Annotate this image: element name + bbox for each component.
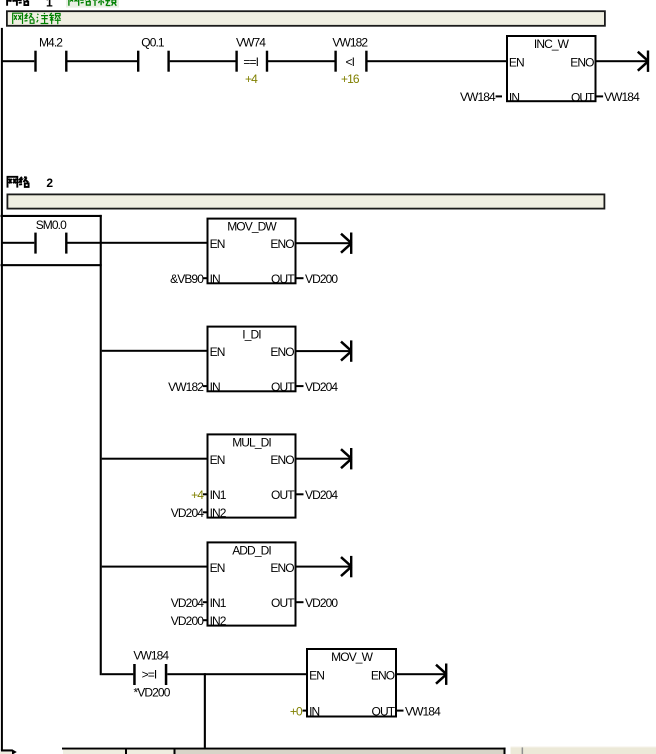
svg-text:+4: +4 [245,72,258,86]
operand +0 at MOV_W IN [290,704,307,718]
svg-text:VD204: VD204 [305,488,338,502]
svg-text:2: 2 [46,176,53,190]
svg-text:ENO: ENO [270,453,294,467]
selection box around SM0.0 [1,215,102,266]
svg-text:&VB90: &VB90 [170,272,204,286]
compare contact ==I VW74 [235,35,268,86]
bottom right panel strip [511,746,656,754]
operand VW184 at INC_W OUT [597,90,641,104]
svg-text:EN: EN [210,561,225,575]
compare contact <I VW182 [332,35,368,86]
svg-text:IN: IN [210,272,220,286]
svg-text:OUT: OUT [372,705,396,719]
svg-text:EN: EN [309,668,324,682]
box ADD_DI [208,542,296,628]
svg-text:+0: +0 [290,704,303,718]
svg-text:IN2: IN2 [210,506,227,520]
svg-text:INC_W: INC_W [534,37,570,51]
svg-text:==I: ==I [243,55,258,69]
svg-text:ADD_DI: ADD_DI [232,544,271,558]
svg-text:VW182: VW182 [168,380,204,394]
wire branch row E left [102,673,134,675]
wire ENO to arrow row B [297,350,351,352]
operand VD204 at MUL_DI OUT [297,488,339,502]
svg-text:VW184: VW184 [133,649,169,663]
svg-text:ENO: ENO [371,668,395,682]
operand VD204 at MUL_DI IN2 [171,506,207,520]
wire branch vertical main [100,215,102,675]
operand VW184 at MOV_W OUT [397,704,441,718]
wire row E contact to MOV_W [167,673,306,675]
svg-text:VW74: VW74 [236,35,266,49]
svg-text:IN1: IN1 [210,488,227,502]
wire ENO to arrow row E [397,673,445,675]
svg-text:OUT: OUT [271,488,295,502]
network 2 header title [8,176,54,190]
operand VD204 at I_DI OUT [297,380,339,394]
svg-text:MOV_W: MOV_W [331,650,373,664]
network 2 comment box (empty) [7,194,604,208]
svg-text:VW184: VW184 [405,704,441,718]
svg-text:+4: +4 [191,488,204,502]
svg-text:VW184: VW184 [460,90,496,104]
rung end arrow row C [341,448,352,469]
svg-text:VD200: VD200 [305,596,338,610]
svg-text:VW184: VW184 [604,90,640,104]
svg-text:I_DI: I_DI [242,328,261,342]
operand VD200 at ADD_DI OUT [297,596,339,610]
svg-text:IN1: IN1 [210,596,227,610]
wire rung 1 segments [3,60,507,62]
svg-text:Q0.1: Q0.1 [141,35,165,49]
rung end arrow network 1 [638,51,649,72]
box MUL_DI [208,434,296,520]
svg-text:IN: IN [309,705,319,719]
svg-text:ENO: ENO [570,55,594,69]
operand VW182 at I_DI IN [168,380,207,394]
svg-text:ENO: ENO [270,237,294,251]
wire ENO to arrow row D [297,566,351,568]
wire branch row D [102,566,207,568]
svg-text:ENO: ENO [270,345,294,359]
svg-text:IN: IN [210,380,220,394]
wire junction vertical below row E [204,673,206,748]
svg-text:IN2: IN2 [210,614,227,628]
svg-text:VD204: VD204 [171,596,204,610]
wire ENO to arrow row A [297,242,351,244]
network 1 comment box [7,11,605,26]
operand VD204 at ADD_DI IN1 [171,596,207,610]
svg-text:VW182: VW182 [332,35,368,49]
svg-text:1: 1 [46,0,53,10]
compare contact >=I VW184 *VD200 [133,649,171,700]
contact SM0.0 [34,218,67,254]
svg-text:EN: EN [210,237,225,251]
svg-text:VD200: VD200 [171,614,204,628]
operand VD200 at ADD_DI IN2 [171,614,207,628]
box INC_W [507,36,596,104]
rung end arrow row D [341,556,352,577]
operand VW184 at INC_W IN [460,90,502,104]
wire branch row C [102,458,207,460]
contact M4.2 [34,35,67,71]
svg-text:OUT: OUT [271,380,295,394]
svg-text:+16: +16 [341,72,360,86]
rung end arrow row B [341,340,352,361]
svg-text:MOV_DW: MOV_DW [227,220,277,234]
svg-text:MUL_DI: MUL_DI [232,436,271,450]
bottom partial next-row cells [0,748,506,754]
operand &VB90 at MOV_DW IN [170,272,207,286]
svg-text:*VD200: *VD200 [134,685,171,699]
svg-text:EN: EN [210,345,225,359]
svg-text:IN: IN [509,90,519,104]
svg-text:<I: <I [346,55,355,69]
svg-text:VD204: VD204 [171,506,204,520]
svg-text:EN: EN [210,453,225,467]
svg-text:OUT: OUT [571,90,595,104]
wire rung 2 row A [3,242,207,244]
svg-text:M4.2: M4.2 [39,35,63,49]
box MOV_DW [208,219,296,287]
wire ENO to arrow (network 1) [597,60,648,62]
svg-text:OUT: OUT [271,596,295,610]
network 1 header title [7,0,119,10]
wire branch row B [102,350,207,352]
box I_DI [208,327,296,395]
contact Q0.1 [137,35,170,71]
svg-text:VD204: VD204 [305,380,338,394]
operand VD200 at MOV_DW OUT [297,272,339,286]
svg-text:VD200: VD200 [305,272,338,286]
rail bottom corner and arrow [1,749,17,754]
box MOV_W [307,649,396,719]
svg-text:EN: EN [509,55,524,69]
svg-text:>=I: >=I [142,667,157,681]
svg-text:ENO: ENO [270,561,294,575]
operand +4 at MUL_DI IN1 [191,488,207,502]
wire ENO to arrow row C [297,458,351,460]
rung end arrow row E [436,664,447,685]
left power rail [1,28,3,750]
svg-text:SM0.0: SM0.0 [36,218,67,232]
svg-text:OUT: OUT [271,272,295,286]
rung end arrow row A [341,233,352,254]
